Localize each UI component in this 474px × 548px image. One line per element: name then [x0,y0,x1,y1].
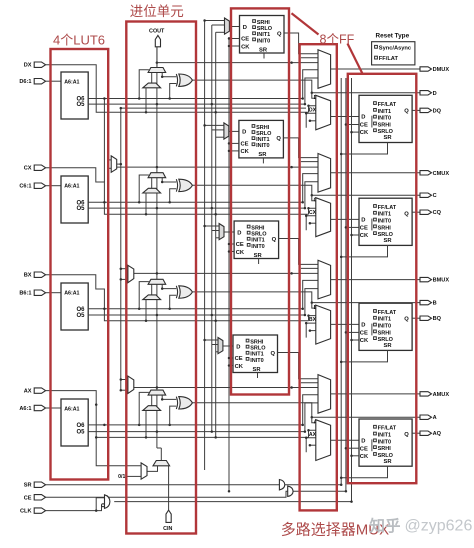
node C output [420,193,432,197]
mux COUTMUX [318,154,331,193]
wire A O5 riser to outmux [305,403,318,432]
carry MUXCY D [148,68,166,73]
svg-text:BMUX: BMUX [433,278,450,284]
svg-text:SR: SR [259,47,268,53]
wire B O6 [88,308,303,310]
svg-text:B6:1: B6:1 [19,291,31,297]
node B output [420,300,432,304]
XOR gate A [176,397,177,409]
wire COUT stem [156,47,158,68]
flip-flop A5FF C (SRHI SRLO INIT1 INIT0) [239,120,284,157]
svg-text:O5: O5 [76,430,85,436]
svg-text:D: D [242,130,246,136]
wire D bff CE stub [346,124,359,126]
svg-text:INIT1: INIT1 [378,109,391,115]
wire carry chain vertical [156,47,158,448]
wire C ffmux in4 [310,222,316,224]
node COUT [155,35,160,46]
wire CX bypass [46,168,309,215]
wire B sff Q loop [279,239,318,265]
svg-text:DQ: DQ [433,108,442,114]
wire B bff CK stub [352,339,360,341]
svg-text:Q: Q [404,108,409,114]
svg-text:A: A [433,415,437,421]
wire C xor lower input [170,189,177,203]
svg-text:SR: SR [253,367,262,373]
svg-text:CQ: CQ [433,210,442,216]
wire CMUX out [331,172,420,174]
svg-text:Q: Q [272,237,277,243]
svg-text:CE: CE [360,446,368,452]
svg-text:SRHI: SRHI [378,446,392,452]
mux A DI select [128,376,134,393]
LUT6 A (A6:A1,O6,O5) [61,399,88,446]
svg-text:Q: Q [271,351,276,357]
mux CYINIT [153,461,170,466]
svg-text:INIT1: INIT1 [257,32,270,38]
wire A O5 [88,431,305,433]
svg-text:Q: Q [404,211,409,217]
wire D outmux in5 [301,57,318,59]
wire B sum out [192,292,420,303]
wire C sum out [192,185,420,195]
wire cyinit left leg [147,466,157,472]
svg-text:CE: CE [241,37,249,43]
svg-text:COUT: COUT [149,29,165,35]
svg-text:SR: SR [254,253,263,259]
svg-text:SRLO: SRLO [250,346,266,352]
wire D a5mux out [229,26,239,28]
wire A and left leg [145,410,147,437]
wire CK riser right [351,78,353,502]
wire C ffmux in2 [309,208,316,214]
svg-text:SR: SR [24,483,32,489]
svg-text:INIT1: INIT1 [256,137,269,143]
svg-text:SR: SR [258,152,267,158]
svg-text:INIT0: INIT0 [378,439,391,445]
wire A ffmux in2 [309,430,316,437]
wire B outmux in5 [301,267,318,269]
wire D a5mux in2 [212,24,225,26]
svg-text:CLK: CLK [20,509,32,515]
node BMUX output [420,277,432,281]
wire B muxcy right leg [162,284,176,288]
svg-text:CK: CK [236,250,245,256]
svg-text:A6:A1: A6:A1 [64,183,79,189]
svg-text:SRLO: SRLO [378,337,394,343]
wire B a5mux in3 [216,237,219,239]
svg-text:Q: Q [404,316,409,322]
wire cyinit in from lut col [96,437,141,465]
red box big FF column [348,74,417,483]
node D6:1 input [34,79,45,84]
mux A5FFMUX C [224,123,229,139]
node SR input [34,482,45,487]
svg-text:FF/LAT: FF/LAT [378,102,397,108]
wire D ffmux in2 [309,106,316,113]
wire D a5mux in1 [205,20,225,22]
wire B ffmux in3 [306,323,316,338]
wire C a5mux in1 [205,124,224,126]
mux DFFMUX [316,95,331,130]
wire A xor lower input [170,406,177,425]
svg-text:FF/LAT: FF/LAT [379,56,399,62]
wire DI feed vertical [120,108,122,390]
wire C carry tap [117,166,318,168]
wire D aux line [121,107,306,109]
wire AX bypass [46,391,309,438]
node A6:1 input [34,405,45,410]
svg-text:SRHI: SRHI [250,340,264,346]
wire C bff CE stub [346,226,359,228]
svg-text:CK: CK [360,454,369,460]
mux AFFMUX [316,420,331,461]
wire CLK line [46,498,105,511]
wire B a5mux in2 [212,230,219,232]
svg-text:CX: CX [24,166,32,172]
wire A a5mux in2 [212,344,218,346]
carry MUXCY B [148,279,166,284]
wire B bff CE stub [346,331,359,333]
flip-flop A5FF B (SRHI SRLO INIT1 INIT0) [234,221,279,259]
wire B carry tap [134,272,318,274]
mux A5FFMUX B [219,224,224,240]
wire A ffmux in4 [310,444,316,446]
mux AOUTMUX [318,375,331,414]
wire C ffmux out [331,218,359,220]
wire B ffmux in2 [309,316,316,321]
carry mux D select elbow [139,70,149,99]
svg-text:O5: O5 [76,206,85,212]
svg-text:INIT1: INIT1 [378,317,391,323]
wire O6 feedback vertical [103,99,105,183]
carry AND B [143,295,161,300]
svg-text:0/1: 0/1 [118,474,125,480]
node CE input [34,495,45,500]
wire O5 riser [211,25,213,432]
wire B and left leg [145,300,147,321]
wire A O6 [88,424,303,426]
svg-text:CE: CE [360,226,368,232]
svg-text:SRLO: SRLO [251,232,267,238]
XOR gate D [176,74,177,86]
svg-text:O5: O5 [76,102,85,108]
svg-text:INIT1: INIT1 [378,212,391,218]
svg-text:@zyp626: @zyp626 [405,518,473,535]
node CLK input [34,508,45,513]
flip-flop AFF/LAT (FF/LAT INIT1 INIT0 SRHI SRLO) [359,419,412,466]
mux B DI select [128,265,134,282]
wire D6:1 to LUT [46,80,61,82]
wire D ffmux out [331,116,359,118]
wire bundle riser 1 [204,21,206,471]
red box carry unit [126,22,196,534]
wire A bff SR path [341,466,387,478]
node CX input [34,165,45,170]
LUT6 D (A6:A1,O6,O5) [61,72,88,119]
svg-text:Q: Q [404,432,409,438]
wire D muxcy left leg [151,73,153,84]
svg-text:CK: CK [360,338,369,344]
node BQ output [420,316,432,320]
wire C a5mux out [229,130,239,132]
svg-text:CE: CE [241,142,249,148]
svg-text:SRHI: SRHI [378,225,392,231]
svg-text:BQ: BQ [433,316,442,322]
svg-text:C6:1: C6:1 [19,184,31,190]
wire C bff SR path [341,245,387,257]
wire bypass riser [215,32,217,437]
svg-text:CK: CK [235,364,244,370]
wire C and left leg [145,193,147,214]
svg-text:A6:1: A6:1 [19,406,31,412]
wire C bff CK stub [352,234,360,236]
wire B O5 riser to outmux [305,289,318,315]
wire A a5mux in3 [216,351,218,353]
carry mux C select elbow [139,175,149,202]
svg-text:B: B [433,301,437,307]
red box mux column [300,44,337,510]
svg-text:CE: CE [236,242,244,248]
red box 4 LUT6 [51,49,109,480]
node AX input [34,388,45,393]
wire D sff Q loop [284,33,318,54]
svg-text:4个LUT6: 4个LUT6 [53,33,105,48]
wire A ffmux in3 [306,438,316,453]
svg-text:A6:A1: A6:A1 [64,290,79,296]
wire DX bypass [46,65,309,113]
wire A ffmux out [331,439,359,441]
wire A muxcy left leg [151,395,153,406]
wire D O6 riser to outmux [303,70,318,99]
red callout diagonal 1 [292,13,319,34]
wire B a5mux out [224,231,234,233]
flip-flop CFF/LAT (FF/LAT INIT1 INIT0 SRHI SRLO) [359,198,412,245]
buffer CE [288,486,293,496]
svg-text:INIT1: INIT1 [378,433,391,439]
wire B xor lower input [170,295,177,308]
svg-text:O6: O6 [76,423,85,429]
wire C muxcy right leg [162,178,176,182]
svg-text:INIT0: INIT0 [257,38,270,44]
wire C O6 riser to outmux [303,174,318,203]
svg-text:D: D [361,438,365,444]
svg-text:D: D [361,218,365,224]
wire B sff SR stub [258,259,260,265]
svg-text:D: D [433,91,437,97]
svg-text:AX: AX [24,389,32,395]
wire D O5 riser to outmux [305,78,318,104]
svg-text:SRHI: SRHI [251,226,265,232]
wire A muxcy right leg [162,395,176,399]
svg-text:D: D [361,323,365,329]
svg-text:CK: CK [241,44,250,50]
svg-text:CK: CK [241,149,250,155]
wire D ffmux in4 [310,120,316,122]
svg-text:CE: CE [24,495,32,501]
svg-text:SRHI: SRHI [378,122,392,128]
node CIN [166,510,171,522]
svg-text:INIT1: INIT1 [251,238,264,244]
wire B O6 riser to outmux [303,280,318,308]
svg-text:D: D [237,230,241,236]
svg-text:D: D [243,25,247,31]
svg-text:SR: SR [384,343,393,349]
LUT6 B (A6:A1,O6,O5) [61,283,88,330]
carry AND A [143,406,161,411]
node BX input [34,272,45,277]
svg-text:A6:A1: A6:A1 [64,79,79,85]
red box small FF column [231,8,289,394]
wire D sff CE stub [229,38,240,40]
mux BOUTMUX [318,260,331,299]
svg-text:CK: CK [360,130,369,136]
XOR gate C [176,179,177,191]
wire D carry tap [157,62,318,64]
svg-text:INIT0: INIT0 [251,244,264,250]
wire C sff SR stub [262,158,264,164]
wire C ffmux in3 [306,216,316,231]
svg-text:INIT0: INIT0 [256,143,269,149]
mux A5FFMUX D [225,18,230,34]
wire A6:1 to LUT [46,407,61,409]
svg-text:A6:A1: A6:A1 [64,406,79,412]
XOR gate B [176,286,177,298]
wire C sff CE stub [229,142,239,144]
svg-text:SRLO: SRLO [256,131,272,137]
wire D sff CK stub [229,45,240,47]
wire D ffmux in3 [306,113,316,128]
svg-text:SR: SR [384,135,393,141]
buffer SR [279,480,284,490]
carry MUXCY A [148,390,166,395]
node DQ output [420,108,432,112]
svg-text:DX: DX [24,63,32,69]
wire D muxcy right leg [162,73,176,77]
svg-text:CMUX: CMUX [433,171,450,177]
node AMUX output [420,392,432,396]
wire A ffmux in1 [312,417,316,423]
svg-text:SRLO: SRLO [257,26,273,32]
svg-text:D6:1: D6:1 [19,79,31,85]
svg-text:AQ: AQ [433,431,442,437]
wire B O5 [88,314,305,316]
wire CE riser right [345,78,347,491]
wire BMUX out [331,279,420,281]
wire B a5mux in1 [205,225,220,227]
svg-text:SR: SR [384,459,393,465]
svg-text:Sync/Async: Sync/Async [379,45,411,51]
flip-flop A5FF A (SRHI SRLO INIT1 INIT0) [233,335,278,373]
wire C outmux in5 [301,161,318,163]
flip-flop BFF/LAT (FF/LAT INIT1 INIT0 SRHI SRLO) [359,303,412,350]
svg-text:O5: O5 [76,313,85,319]
node D output [420,91,432,95]
wire B muxcy left leg [151,284,153,295]
wire C6:1 to LUT [46,185,61,187]
mux C DI select [111,156,117,172]
flip-flop A5FF D (SRHI SRLO INIT1 INIT0) [240,16,285,54]
wire C O6 [88,201,303,203]
wire D and left leg [145,88,147,113]
svg-text:SR: SR [384,238,393,244]
wire D bff SR path [341,143,387,155]
LUT6 C (A6:A1,O6,O5) [61,176,88,223]
svg-text:INIT1: INIT1 [250,352,263,358]
svg-text:SRLO: SRLO [378,129,394,135]
wire 0/1 input [127,475,142,477]
wire B sff CE stub [229,243,234,245]
mux CFFMUX [316,198,331,237]
wire A sum out [192,403,420,418]
wire C sff CK stub [229,150,239,152]
wire SR riser right [340,78,342,485]
svg-text:D: D [361,115,365,121]
wire AQ out [412,432,420,434]
svg-text:C: C [433,193,437,199]
svg-text:FF/LAT: FF/LAT [378,205,397,211]
wire C O5 riser to outmux [305,182,318,208]
wire A sff SR stub [257,373,259,379]
wire A a5mux out [223,345,233,347]
wire A sff CE stub [229,357,233,359]
mux DOUTMUX [318,50,331,89]
wire AMUX out [331,393,420,395]
node A output [420,415,432,419]
svg-text:BX: BX [24,273,32,279]
wire B sff CK stub [229,251,234,253]
svg-text:CK: CK [360,233,369,239]
svg-text:CIN: CIN [163,526,172,532]
svg-text:D: D [236,344,240,350]
wire D ffmux in1 [312,93,316,99]
svg-text:SRLO: SRLO [378,232,394,238]
wire B ffmux in1 [312,303,316,309]
wire CQ out [412,211,420,213]
wire C muxcy left leg [151,178,153,189]
wire D a5mux in3 [216,31,225,33]
node CQ output [420,210,432,214]
svg-text:FF/LAT: FF/LAT [378,426,397,432]
node C6:1 input [34,183,45,188]
svg-text:Q: Q [276,136,281,142]
wire D O6 [88,98,303,100]
wire C O5 [88,207,305,209]
wire B ffmux out [331,323,359,325]
svg-text:INIT0: INIT0 [378,219,391,225]
carry mux B select elbow [139,282,149,309]
svg-text:8个FF: 8个FF [320,33,355,47]
svg-text:知乎: 知乎 [370,516,401,535]
svg-text:FF/LAT: FF/LAT [378,310,397,316]
mux 0/1 select [141,463,147,479]
svg-text:INIT0: INIT0 [250,358,263,364]
carry AND C [143,188,161,193]
svg-text:AMUX: AMUX [433,392,450,398]
wire D sum out [192,80,420,93]
svg-text:SRHI: SRHI [378,330,392,336]
wire B ffmux in4 [310,330,316,332]
wire A a5mux in1 [205,339,218,341]
mux CLK inverter [105,495,110,509]
wire A carry tap [134,387,318,389]
svg-text:进位单元: 进位单元 [130,4,184,19]
wire CIN riser [168,466,170,510]
svg-text:SRHI: SRHI [257,20,271,26]
wire A bff CE stub [346,447,359,449]
svg-text:CE: CE [360,331,368,337]
wire D O5 [88,103,305,105]
